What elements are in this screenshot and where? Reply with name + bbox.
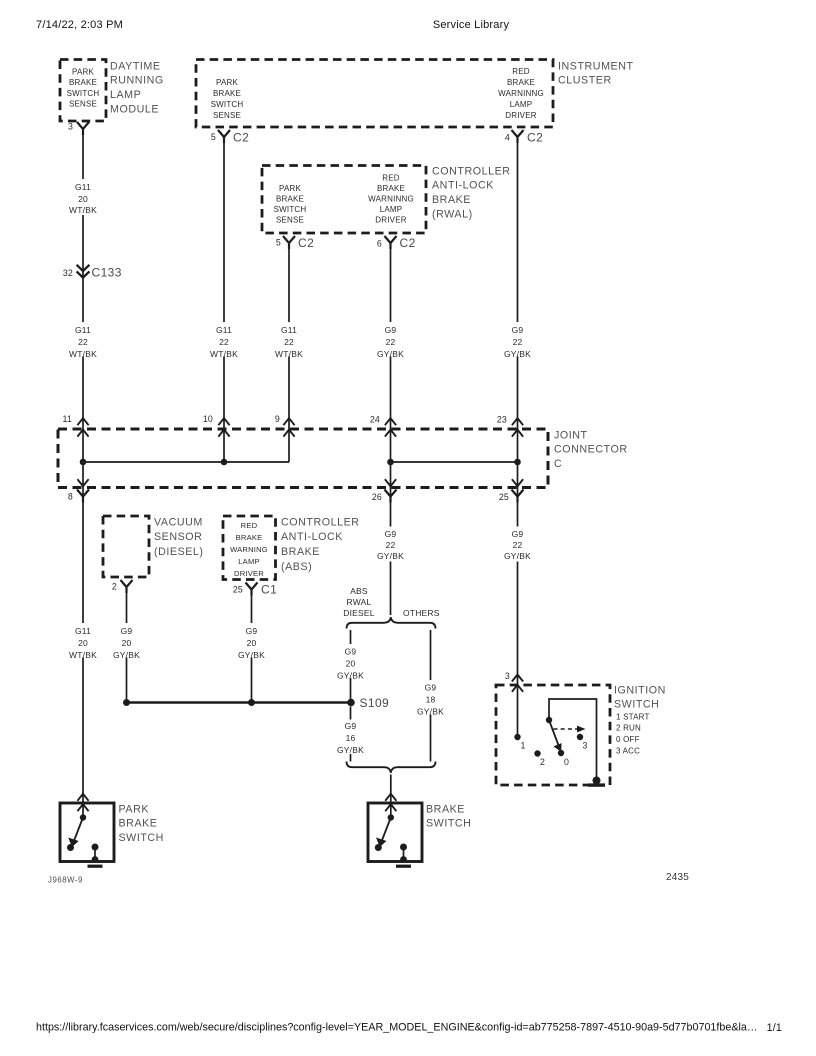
svg-text:BRAKE: BRAKE [276,195,304,204]
svg-text:BRAKE: BRAKE [119,818,158,830]
svg-text:LAMP: LAMP [510,100,533,109]
wire W3 segment to joint connector pin 9 [288,357,290,430]
ignition contact 2 dot [534,750,540,756]
svg-text:LAMP: LAMP [238,557,259,566]
svg-text:G11: G11 [75,626,91,636]
splice bus wire [127,701,352,703]
svg-text:2435: 2435 [666,872,689,883]
JC interior wire at pin 23 [517,429,519,488]
JC interior wire at pin 9 elbow [288,429,290,462]
wire segment below S109 [350,707,352,720]
svg-text:RWAL: RWAL [347,597,372,607]
wire W5 segment below JC pin 25 [517,487,519,527]
pass-through chevrons at JC pin 10 [218,418,229,425]
svg-text:CONTROLLER: CONTROLLER [432,165,511,177]
JC right bus wire [391,461,518,463]
svg-text:DAYTIME: DAYTIME [110,60,161,72]
ignition rotor pivot dot [546,717,552,723]
wire from vacuum sensor pin 2 [126,593,128,624]
ignition interior wire to contact 1 [517,676,519,736]
svg-text:22: 22 [513,540,523,550]
svg-text:C2: C2 [400,236,416,250]
svg-text:11: 11 [62,414,72,424]
svg-text:22: 22 [386,337,396,347]
JC interior wire at pin 10 [223,429,225,462]
svg-text:SWITCH: SWITCH [211,100,244,109]
svg-text:J968W-9: J968W-9 [48,876,83,885]
svg-text:G11: G11 [281,325,297,335]
svg-text:CONTROLLER: CONTROLLER [281,516,360,528]
svg-text:ANTI-LOCK: ANTI-LOCK [281,531,343,543]
vacuum sensor box [103,516,149,577]
brake switch entry chevrons [385,794,396,801]
svg-text:WARNINNG: WARNINNG [368,195,414,204]
ignition switch entry chevrons [512,675,523,682]
svg-text:GY/BK: GY/BK [337,745,364,755]
svg-text:WARNING: WARNING [230,545,268,554]
pin 26 connector symbol below JC [385,490,397,503]
wire W1 segment from DRL pin 3 [82,134,84,179]
svg-text:G11: G11 [75,182,91,192]
park brake switch common contact dot [80,814,86,820]
svg-text:CONNECTOR: CONNECTOR [554,444,628,456]
svg-text:C2: C2 [527,131,543,145]
svg-text:7/14/22, 2:03 PM: 7/14/22, 2:03 PM [36,19,123,31]
wire W1 segment below JC pin 8 [82,487,84,623]
svg-text:4: 4 [505,133,510,143]
wire W2 segment from IC pin 5 [223,143,225,322]
brake switch box [368,803,422,862]
svg-text:5: 5 [276,238,281,248]
pass-through chevrons at JC pin 11 [77,418,88,425]
svg-text:(RWAL): (RWAL) [432,208,473,220]
park brake switch lever [74,818,84,843]
wire W3 segment from RWAL pin 5 [288,249,290,323]
svg-text:1: 1 [521,741,526,751]
svg-text:G9: G9 [425,682,437,692]
svg-text:C1: C1 [261,583,277,597]
pass-through chevrons at JC pin 24 [385,418,396,425]
svg-text:32: 32 [63,268,73,278]
brake switch interior stem [390,804,392,817]
svg-text:3: 3 [505,671,510,681]
park brake switch lower contact dot [67,844,74,851]
daytime running lamp module box [60,60,106,122]
wire W4 segment from RWAL pin 6 [390,249,392,323]
svg-text:22: 22 [219,337,229,347]
brake switch common contact dot [388,814,394,820]
svg-text:16: 16 [346,733,356,743]
junction dot at JC pin 10 [221,459,228,466]
svg-text:2: 2 [112,582,117,592]
pin 8 connector symbol below JC [77,490,89,503]
joint connector C box [58,429,548,488]
svg-text:C133: C133 [92,266,122,280]
svg-text:S109: S109 [360,696,390,710]
svg-text:5: 5 [211,132,216,142]
svg-text:DIESEL: DIESEL [343,608,375,618]
svg-text:24: 24 [370,415,380,425]
svg-text:SWITCH: SWITCH [614,699,659,711]
JC left bus wire [83,461,289,463]
svg-text:0 OFF: 0 OFF [616,735,640,744]
svg-text:BRAKE: BRAKE [281,546,320,558]
splice S109 dot [347,699,355,707]
JC interior wire at pin 11 [82,429,84,488]
svg-text:WARNINNG: WARNINNG [498,89,544,98]
svg-text:IGNITION: IGNITION [614,684,666,696]
wire segment to bottom brace [350,754,352,762]
ignition rotor lever [549,720,560,748]
JC interior wire at pin 24 [390,429,392,488]
svg-text:LAMP: LAMP [110,89,141,101]
exit chevron at JC pin 25 [512,479,523,486]
wire W1 segment below C133 [82,281,84,322]
junction dot at JC pin 24 [387,459,394,466]
svg-text:ABS: ABS [350,586,368,596]
svg-text:25: 25 [233,585,243,595]
svg-text:RED: RED [512,67,530,76]
svg-text:BRAKE: BRAKE [377,184,405,193]
svg-text:C: C [554,458,562,470]
instrument cluster box [196,60,553,128]
svg-text:20: 20 [78,194,88,204]
svg-text:26: 26 [372,492,382,502]
svg-text:MODULE: MODULE [110,103,159,115]
brake switch ground contact dot [400,844,407,851]
svg-text:22: 22 [513,337,523,347]
wire from ABS to splice [251,658,253,703]
wire W1 segment to joint connector pin 11 [82,357,84,430]
park brake switch ground symbol [92,856,99,863]
svg-text:SENSE: SENSE [213,111,241,120]
svg-text:INSTRUMENT: INSTRUMENT [558,60,634,72]
svg-text:ANTI-LOCK: ANTI-LOCK [432,180,494,192]
svg-text:C2: C2 [298,236,314,250]
svg-text:SWITCH: SWITCH [67,89,100,98]
svg-text:PARK: PARK [279,184,301,193]
svg-text:25: 25 [499,492,509,502]
svg-text:1/1: 1/1 [767,1022,782,1034]
wire W1 segment to park brake switch [82,658,84,805]
svg-text:VACUUM: VACUUM [154,516,203,528]
ignition ground symbol [593,777,601,785]
wire segment from merge to brake switch [390,775,392,805]
pin 6 connector symbol at RWAL [385,236,397,249]
svg-text:G9: G9 [385,529,397,539]
svg-text:(ABS): (ABS) [281,561,312,573]
junction dot at JC pin 11 [80,459,87,466]
svg-text:BRAKE: BRAKE [69,78,97,87]
pin 3 connector symbol at DRL module [77,122,89,135]
svg-text:2: 2 [540,757,545,767]
svg-text:SENSE: SENSE [69,100,97,109]
svg-text:G9: G9 [121,626,133,636]
ignition contact 3 dot [577,734,583,740]
ignition interior wire from pivot to ground [549,699,597,781]
svg-text:G11: G11 [216,325,232,335]
svg-text:BRAKE: BRAKE [507,78,535,87]
svg-text:G9: G9 [246,626,258,636]
pin 4 connector symbol at instrument cluster [512,130,524,143]
svg-text:CLUSTER: CLUSTER [558,75,612,87]
exit chevron at JC pin 8 [77,479,88,486]
pin 2 connector symbol at vacuum sensor [121,580,133,593]
junction dot at JC pin 23 [514,459,521,466]
pin 5 connector symbol at RWAL [283,236,295,249]
svg-text:22: 22 [78,337,88,347]
brake switch ground symbol [400,856,407,863]
svg-text:BRAKE: BRAKE [236,533,263,542]
left branch wire segment to splice S109 [350,678,352,703]
svg-text:BRAKE: BRAKE [213,89,241,98]
pin 5 connector symbol at instrument cluster [218,130,230,143]
svg-text:SWITCH: SWITCH [426,818,471,830]
svg-text:18: 18 [426,694,436,704]
wire W5 segment to ignition switch [517,562,519,677]
svg-text:22: 22 [284,337,294,347]
svg-text:Service Library: Service Library [433,19,510,31]
pin 25 connector symbol below JC [512,490,524,503]
exit chevron at JC pin 26 [385,479,396,486]
svg-text:PARK: PARK [119,803,150,815]
svg-text:G9: G9 [512,529,524,539]
svg-text:LAMP: LAMP [380,205,403,214]
wire W4 segment to split brace [390,562,392,616]
top split brace [347,617,436,628]
svg-text:20: 20 [346,658,356,668]
ignition contact 1 dot [514,734,520,740]
svg-text:3: 3 [68,122,73,132]
svg-text:G9: G9 [345,646,357,656]
ignition rotation dashed arrow [554,728,578,730]
park brake switch box [60,803,114,862]
brake switch ground stem [403,847,405,859]
wire W4 segment below JC pin 26 [390,487,392,527]
splice dot at vacuum wire [123,699,130,706]
svg-text:C2: C2 [233,131,249,145]
svg-text:DRIVER: DRIVER [375,216,406,225]
wire W5 segment to joint connector pin 23 [517,357,519,430]
wire W5 segment from IC pin 4 [517,143,519,322]
svg-text:G9: G9 [385,325,397,335]
svg-text:22: 22 [386,540,396,550]
controller anti-lock brake RWAL box [262,166,426,234]
svg-text:8: 8 [68,492,73,502]
svg-text:2 RUN: 2 RUN [616,724,641,733]
park brake switch interior stem [82,804,84,817]
svg-text:GY/BK: GY/BK [377,551,404,561]
splice dot at ABS wire [248,699,255,706]
svg-text:RUNNING: RUNNING [110,75,164,87]
brake switch lever [381,818,391,843]
svg-text:RED: RED [382,173,400,182]
right branch wire segment to bottom brace [430,715,432,762]
brake switch lower contact dot [375,844,382,851]
svg-text:20: 20 [78,638,88,648]
svg-text:SENSE: SENSE [276,216,304,225]
wire W2 segment to joint connector pin 10 [223,357,225,430]
svg-text:PARK: PARK [72,67,94,76]
svg-text:SWITCH: SWITCH [119,832,164,844]
park brake switch entry chevrons [77,794,88,801]
svg-text:BRAKE: BRAKE [432,194,471,206]
svg-text:(DIESEL): (DIESEL) [154,546,204,558]
svg-text:BRAKE: BRAKE [426,803,465,815]
svg-text:20: 20 [122,638,132,648]
svg-text:OTHERS: OTHERS [403,608,440,618]
svg-text:G9: G9 [512,325,524,335]
svg-text:DRIVER: DRIVER [234,569,264,578]
ignition contact 0 dot [558,750,564,756]
svg-text:0: 0 [564,757,569,767]
svg-text:SWITCH: SWITCH [274,205,307,214]
svg-text:https://library.fcaservices.co: https://library.fcaservices.com/web/secu… [36,1022,758,1034]
controller anti-lock brake ABS box [223,516,276,580]
bottom merge brace [347,762,436,773]
svg-text:DRIVER: DRIVER [505,111,536,120]
svg-text:G9: G9 [345,721,357,731]
svg-text:10: 10 [203,414,213,424]
wire from ABS pin 25 [251,595,253,623]
svg-text:GY/BK: GY/BK [504,551,531,561]
svg-text:20: 20 [247,638,257,648]
svg-text:9: 9 [275,414,280,424]
svg-text:23: 23 [497,415,507,425]
svg-text:3: 3 [583,741,588,751]
svg-text:PARK: PARK [216,78,238,87]
park brake switch ground stem [94,847,96,859]
pass-through chevrons at JC pin 23 [512,418,523,425]
svg-text:3 ACC: 3 ACC [616,746,640,755]
svg-text:SENSOR: SENSOR [154,531,202,543]
pin 25 connector symbol at ABS [246,583,258,596]
right branch wire segment below brace [430,630,432,680]
connector C133 double chevron [77,265,90,271]
ignition switch box [496,685,610,785]
park brake switch ground contact dot [92,844,99,851]
svg-text:6: 6 [377,239,382,249]
pass-through chevrons at JC pin 9 [283,418,294,425]
left branch wire segment below brace [350,630,352,644]
wire from vacuum sensor to splice [126,658,128,703]
wire W1 segment to C133 [82,215,84,281]
svg-text:1 START: 1 START [616,712,650,721]
svg-text:G11: G11 [75,325,91,335]
svg-text:WT/BK: WT/BK [69,205,97,215]
wire W4 segment to joint connector pin 24 [390,357,392,430]
svg-text:RED: RED [241,521,258,530]
svg-text:JOINT: JOINT [554,429,588,441]
